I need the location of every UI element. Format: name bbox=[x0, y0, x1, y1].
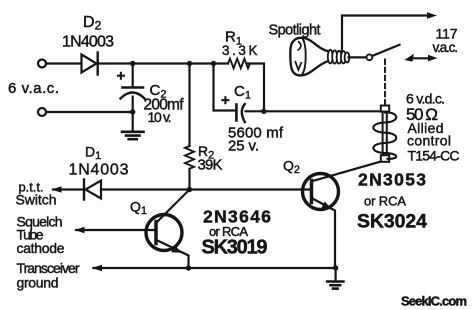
dashed relay actuation link bbox=[384, 60, 386, 105]
arrow to transceiver ground bbox=[92, 265, 102, 272]
svg-text:39K: 39K bbox=[198, 157, 223, 174]
wire p.t.t. line left bbox=[53, 188, 84, 190]
wire C2 top lead bbox=[132, 64, 134, 87]
resistor R1 bbox=[228, 59, 250, 69]
node AC input terminal bottom bbox=[38, 108, 46, 116]
svg-text:25 v.: 25 v. bbox=[228, 138, 259, 155]
ground below C2 bbox=[122, 112, 144, 139]
svg-text:D1: D1 bbox=[85, 144, 101, 163]
node C1 branch junction bbox=[211, 61, 216, 66]
svg-text:2N3053: 2N3053 bbox=[358, 170, 426, 190]
wire C1 node to relay coil bbox=[264, 110, 381, 112]
wire R2 bottom lead bbox=[188, 169, 190, 190]
wire top AC line to D2 anode bbox=[47, 62, 82, 64]
svg-text:cathode: cathode bbox=[17, 240, 65, 256]
double arrow to 117 v.a.c. bbox=[404, 54, 437, 62]
svg-text:3.3K: 3.3K bbox=[222, 43, 258, 58]
svg-text:SK3024: SK3024 bbox=[357, 211, 427, 233]
svg-text:Q1: Q1 bbox=[130, 199, 147, 218]
wire R2 top lead bbox=[188, 64, 190, 147]
svg-text:C1: C1 bbox=[234, 83, 251, 102]
wire C2 bottom lead bbox=[132, 97, 134, 113]
diode D2 bbox=[82, 53, 98, 75]
svg-text:10 v.: 10 v. bbox=[148, 109, 172, 125]
relay coil K1 Allied T154-CC bbox=[373, 106, 396, 162]
wire C1 right lead bbox=[246, 110, 265, 112]
node C1 right junction bbox=[261, 109, 266, 114]
svg-text:control: control bbox=[407, 133, 451, 149]
svg-text:+: + bbox=[221, 92, 230, 109]
node Q1 emitter junction bbox=[186, 265, 191, 270]
svg-text:6 v.a.c.: 6 v.a.c. bbox=[8, 80, 59, 97]
arrow to squelch tube cathode bbox=[75, 227, 85, 234]
wire Q2 emitter bbox=[313, 199, 336, 269]
wire C1 left branch bbox=[214, 64, 236, 111]
svg-text:SK3019: SK3019 bbox=[202, 237, 268, 259]
wire bottom AC line bbox=[47, 111, 133, 113]
switch contact pivot bbox=[367, 54, 373, 60]
capacitor C2 bbox=[121, 88, 145, 99]
ground below Q2 bbox=[327, 268, 343, 289]
svg-text:1N4003: 1N4003 bbox=[69, 162, 129, 179]
diode D1 bbox=[84, 180, 101, 200]
node AC input terminal top bbox=[38, 60, 46, 68]
wire Q1 emitter bbox=[158, 241, 189, 269]
wire spotlight top feed with arrow to 117 v.a.c. bbox=[342, 12, 437, 52]
resistor R2 bbox=[185, 146, 194, 169]
transistor Q1 bbox=[146, 215, 182, 251]
wire Q1 collector bbox=[157, 190, 190, 223]
svg-text:1N4003: 1N4003 bbox=[62, 34, 114, 51]
node base junction bbox=[187, 187, 192, 192]
wire transceiver ground line bbox=[94, 267, 336, 269]
switch blade bbox=[373, 45, 400, 56]
svg-text:Switch: Switch bbox=[16, 192, 57, 208]
node C2 top junction bbox=[130, 61, 135, 66]
svg-text:T154-CC: T154-CC bbox=[408, 148, 460, 164]
arrow to p.t.t. switch bbox=[52, 186, 62, 193]
capacitor C1 bbox=[236, 104, 244, 122]
transistor Q2 bbox=[303, 174, 339, 210]
svg-text:ground: ground bbox=[17, 275, 59, 291]
node R2 top junction bbox=[187, 61, 192, 66]
svg-text:v.a.c.: v.a.c. bbox=[433, 40, 459, 55]
svg-text:SeekIC.com: SeekIC.com bbox=[401, 294, 467, 309]
node C2 bottom junction bbox=[130, 109, 135, 114]
svg-text:Q2: Q2 bbox=[283, 158, 300, 177]
lamp spotlight bbox=[290, 38, 349, 76]
svg-text:D2: D2 bbox=[83, 14, 102, 33]
wire squelch line bbox=[76, 229, 156, 231]
wire D2 cathode to top rail bbox=[98, 62, 228, 64]
svg-text:or RCA: or RCA bbox=[364, 194, 406, 209]
svg-text:Spotlight: Spotlight bbox=[269, 23, 321, 39]
wire Q2 collector to relay coil bbox=[313, 162, 382, 182]
wire lamp to switch bbox=[349, 56, 367, 58]
wire p.t.t. line to Q2 base bbox=[101, 188, 312, 190]
node Q2 emitter junction bbox=[333, 265, 338, 270]
svg-text:+: + bbox=[117, 68, 126, 85]
wire R1 right to corner bbox=[248, 64, 264, 112]
